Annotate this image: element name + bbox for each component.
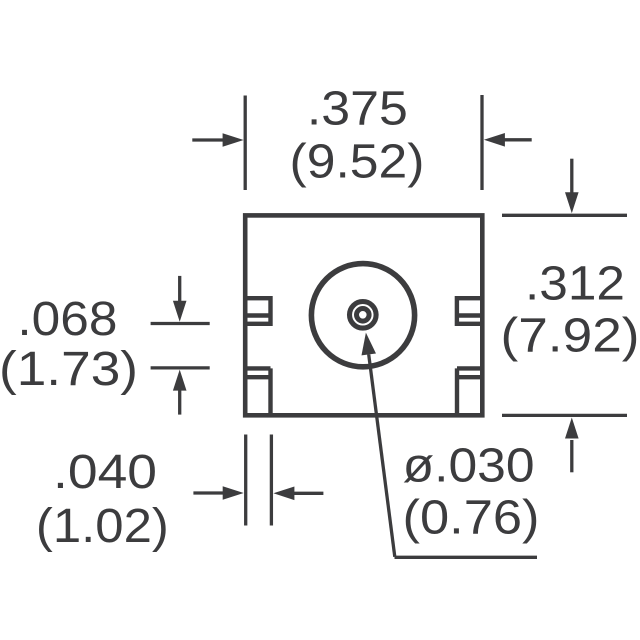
top width dimension extension line left bbox=[244, 96, 247, 191]
svg-text:.312: .312 bbox=[525, 258, 625, 311]
right height dimension extension line top bbox=[502, 214, 627, 217]
left notch dimension witness line bottom bbox=[151, 366, 210, 369]
svg-text:(1.02): (1.02) bbox=[36, 500, 169, 553]
svg-text:.040: .040 bbox=[53, 446, 157, 499]
lower-right terminal notch bbox=[457, 368, 482, 415]
top width dimension extension line right bbox=[480, 95, 483, 190]
svg-text:ø.030: ø.030 bbox=[403, 440, 535, 493]
svg-text:.068: .068 bbox=[17, 293, 117, 346]
svg-text:.375: .375 bbox=[307, 83, 408, 136]
top width dimension right arrow bbox=[484, 133, 532, 147]
svg-text:(0.76): (0.76) bbox=[403, 492, 540, 545]
left notch dimension witness line top bbox=[151, 322, 210, 325]
upper-left terminal notch bbox=[245, 298, 270, 324]
svg-text:(1.73): (1.73) bbox=[0, 343, 138, 396]
upper-right terminal notch bbox=[457, 298, 482, 324]
bottom lead dimension left arrow bbox=[193, 486, 243, 500]
bottom lead dimension right arrow bbox=[273, 487, 323, 501]
left notch dimension bottom arrow bbox=[173, 370, 187, 415]
adjustment screw outer ring bbox=[350, 302, 377, 329]
bottom lead dimension extension line right bbox=[270, 435, 273, 526]
svg-text:(9.52): (9.52) bbox=[290, 136, 425, 189]
leader line to screw hole bbox=[369, 354, 395, 556]
bottom lead dimension extension line left bbox=[244, 435, 247, 526]
adjustment screw inner ring bbox=[357, 309, 370, 322]
leader underline bbox=[395, 556, 538, 559]
package body outline bbox=[245, 215, 482, 415]
left notch dimension top arrow bbox=[173, 276, 187, 322]
top width dimension left arrow bbox=[192, 133, 243, 147]
svg-text:(7.92): (7.92) bbox=[501, 310, 640, 363]
right height dimension bottom arrow bbox=[565, 418, 579, 473]
leader arrowhead bbox=[361, 333, 375, 356]
rotor circle bbox=[311, 264, 414, 367]
lower-left terminal notch bbox=[245, 368, 270, 415]
right height dimension extension line bottom bbox=[502, 414, 627, 417]
right height dimension top arrow bbox=[565, 159, 579, 214]
